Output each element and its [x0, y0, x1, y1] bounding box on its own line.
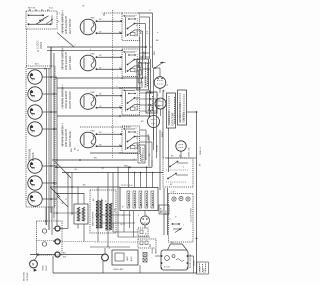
svg-text:LEFT REAR: LEFT REAR [68, 56, 72, 70]
svg-text:BAKE: BAKE [161, 131, 164, 137]
svg-text:M 1 2: M 1 2 [121, 224, 126, 226]
feed wire unit3 bottom [57, 115, 150, 117]
neutral terminal N [30, 260, 38, 268]
svg-text:BK 1: BK 1 [140, 202, 142, 206]
feed wire unit4 bottom [90, 152, 138, 154]
wires below cluster [153, 128, 155, 141]
svg-text:OVEN LAMP: OVEN LAMP [113, 268, 124, 271]
wire receptacle P7 stub [42, 198, 57, 200]
gang dashed line through switches [112, 10, 114, 158]
svg-text:W: W [78, 149, 80, 151]
dashed drop wire from clock box [26, 29, 28, 66]
bake element [96, 200, 99, 228]
lamp PL3 [148, 116, 160, 128]
svg-text:LAMP: LAMP [155, 248, 158, 254]
svg-text:OVEN: OVEN [142, 81, 144, 88]
wire band short [57, 193, 84, 195]
comb wires down [67, 172, 69, 229]
svg-text:BK R: BK R [141, 29, 143, 34]
svg-text:AND ELEMENT: AND ELEMENT [64, 90, 68, 109]
svg-text:RED: RED [91, 92, 96, 94]
svg-text:2: 2 [75, 45, 76, 47]
svg-text:RED: RED [71, 147, 73, 152]
wire y213 [53, 212, 84, 214]
receptacle P1 [28, 70, 42, 84]
svg-text:L1: L1 [135, 51, 137, 53]
svg-text:BAKE UNIT: BAKE UNIT [96, 207, 99, 218]
wire receptacle P4 stub [42, 128, 57, 130]
svg-text:AUTOMATIC OVEN: AUTOMATIC OVEN [179, 102, 182, 123]
svg-text:GROUND: GROUND [27, 272, 29, 281]
svg-text:BK 1: BK 1 [128, 202, 130, 206]
svg-text:LAMP: LAMP [126, 255, 129, 261]
ground arrow [34, 269, 38, 272]
part label box [197, 262, 209, 274]
leader diagonal from clock box [57, 33, 74, 48]
wire bundle v4 [140, 30, 143, 32]
svg-text:RED: RED [91, 17, 96, 19]
wire bundle v3 [140, 23, 146, 25]
surface element E3 [80, 94, 96, 110]
svg-text:OVEN: OVEN [152, 248, 154, 254]
svg-text:THERMOSTAT: THERMOSTAT [168, 110, 171, 126]
bottom element bus [90, 246, 130, 248]
wire thermostat to right bus [187, 111, 197, 113]
terminal pair [143, 253, 147, 257]
wire hood over door switch [168, 244, 188, 250]
wire bundle v2 [140, 16, 150, 18]
svg-text:SW: SW [63, 257, 66, 259]
feed wire pair from clock to surface units [47, 46, 146, 48]
svg-text:OVEN: OVEN [40, 42, 43, 49]
top-left oven clock-control switch box [26, 11, 57, 29]
wires element E1 to switch S1 [96, 20, 122, 22]
svg-text:W: W [66, 198, 68, 200]
oven indicator lamp PL1 [154, 77, 166, 89]
oven element enclosure (dashed) [90, 190, 116, 233]
svg-text:1: 1 [168, 161, 169, 163]
svg-text:RED: RED [91, 53, 96, 55]
wire into grill switch [62, 172, 163, 174]
svg-text:DOOR SWITCH: DOOR SWITCH [190, 253, 192, 268]
svg-text:1: 1 [117, 76, 118, 78]
svg-text:CLOCK OVEN: CLOCK OVEN [191, 208, 193, 222]
svg-text:2: 2 [130, 215, 131, 217]
svg-text:BAKE ELEMENT: BAKE ELEMENT [92, 211, 95, 226]
wire receptacle P3 stub [42, 111, 57, 113]
infinite switch S1 [122, 13, 140, 41]
wire receptacle P2 stub [42, 93, 57, 95]
svg-text:W: W [109, 247, 111, 249]
bus jog at clock [196, 238, 198, 240]
right verticals from S3 [153, 68, 155, 150]
svg-text:RIGHT REAR: RIGHT REAR [68, 131, 72, 147]
svg-text:BK 1: BK 1 [152, 202, 154, 206]
svg-text:RED: RED [91, 130, 96, 132]
wire receptacle P6 stub [42, 182, 57, 184]
wire band TBL [52, 159, 137, 161]
wires from receptacle block down [45, 207, 47, 225]
surface unit receptacle block (dashed) [26, 66, 55, 207]
selector contact [155, 63, 163, 69]
grill lamp PL4 [176, 141, 186, 151]
diagonal jog wires [55, 162, 71, 179]
svg-text:BLK: BLK [35, 64, 39, 66]
left bus wires [46, 69, 48, 226]
wire receptacle P5 stub [42, 165, 57, 167]
feed wire unit4 top [80, 126, 131, 128]
svg-text:W BK: W BK [144, 50, 146, 56]
svg-text:GRILL HI: GRILL HI [200, 146, 202, 155]
svg-text:2: 2 [117, 86, 118, 88]
svg-text:W: W [167, 84, 169, 86]
element exit wires [97, 228, 99, 242]
oven selector switch [137, 59, 149, 90]
lamp PL2 [155, 98, 166, 109]
svg-text:L1: L1 [135, 90, 137, 92]
broil element [106, 203, 109, 230]
feed wire L1 top dashed [104, 12, 122, 14]
clock contacts [172, 223, 180, 225]
svg-text:BK R: BK R [111, 209, 113, 214]
svg-text:BK 1: BK 1 [146, 202, 148, 206]
oven door switch box [161, 250, 188, 270]
surface element E4 [80, 132, 96, 148]
small fuse box 1 [138, 228, 148, 236]
door plug connector [74, 204, 88, 224]
infinite switch S3 [122, 88, 140, 116]
receptacle P4 [28, 122, 42, 136]
oven relay box [146, 92, 157, 113]
receptacle P7 [28, 192, 42, 206]
wire bundle v5 [139, 36, 141, 38]
svg-text:T1: T1 [170, 218, 172, 220]
svg-text:BR T BK: BR T BK [28, 8, 36, 10]
svg-text:Y W: Y W [115, 208, 117, 212]
svg-text:NEUTRAL: NEUTRAL [23, 271, 26, 281]
svg-text:AND ELEMENT: AND ELEMENT [64, 51, 68, 70]
clock terminal B [179, 196, 183, 200]
svg-text:L1 N T: L1 N T [171, 192, 176, 194]
svg-text:N L2: N L2 [49, 8, 53, 10]
bottom mid horizontals [95, 214, 130, 216]
svg-text:BK 1: BK 1 [134, 202, 136, 206]
wire receptacle P1 stub [42, 76, 57, 78]
infinite switch S4 [122, 126, 140, 154]
svg-text:2: 2 [46, 18, 47, 20]
thermostat terminal block [120, 188, 158, 211]
svg-text:TBL: TBL [94, 158, 97, 160]
thermostat tall box B [178, 90, 187, 125]
svg-text:3: 3 [138, 215, 139, 217]
narrow label box [138, 145, 145, 163]
svg-text:RIGHT FRONT: RIGHT FRONT [68, 91, 72, 109]
right bus wire [196, 112, 198, 273]
svg-text:GRILL ON: GRILL ON [189, 147, 191, 157]
wire band red [55, 166, 152, 168]
wires element E3 to switch S3 [96, 95, 122, 97]
junction block lamp b [42, 242, 46, 246]
svg-text:N C NO: N C NO [164, 267, 171, 269]
oven lamp [102, 254, 109, 261]
svg-text:AND ELEMENT: AND ELEMENT [64, 128, 68, 147]
vent fan motor [141, 216, 150, 225]
bottom-left junction block (dashed) [37, 221, 63, 255]
terminal block lower wires [123, 211, 125, 232]
lamp socket 3 [55, 252, 60, 257]
wire band bk [50, 186, 120, 188]
connector wires [77, 224, 79, 229]
unit4 out wires [140, 129, 146, 131]
svg-text:T2: T2 [176, 216, 178, 218]
mid bus wires [162, 90, 164, 158]
svg-text:1: 1 [31, 13, 32, 15]
svg-text:OVEN: OVEN [43, 265, 45, 271]
stubs from switch S3 [140, 92, 154, 94]
wire L1 to selector [138, 12, 153, 14]
lamp socket 2 [55, 239, 60, 244]
lamp socket 1 [55, 226, 60, 231]
svg-text:LIGHT: LIGHT [46, 264, 48, 271]
svg-text:L1: L1 [150, 9, 152, 11]
receptacle P2 [28, 87, 42, 101]
junction block lamp a [42, 229, 46, 233]
small aux box [159, 205, 169, 214]
wires from door switch sides [155, 255, 161, 257]
svg-text:LEFT FRONT: LEFT FRONT [68, 18, 72, 34]
svg-text:SIGNAL: SIGNAL [156, 144, 159, 152]
feed wire unit2 bottom [55, 77, 143, 79]
svg-text:W: W [106, 200, 108, 202]
bottom mid verticals [112, 172, 114, 232]
svg-text:L1 RED: L1 RED [200, 266, 202, 273]
svg-text:AND ELEMENT: AND ELEMENT [64, 15, 68, 34]
oven clock (dashed box) [169, 194, 194, 243]
svg-text:4: 4 [146, 215, 147, 217]
clock terminal A [172, 197, 176, 201]
grill switch box (dashed) [163, 158, 193, 187]
svg-text:1R 2R 1L 2L B: 1R 2R 1L 2L B [121, 185, 133, 187]
svg-text:L1: L1 [135, 15, 137, 17]
svg-text:W: W [151, 46, 153, 48]
wires element E2 to switch S2 [96, 56, 122, 58]
svg-text:1: 1 [122, 215, 123, 217]
stubs from switch S2 [140, 52, 151, 54]
wires right of selector [150, 59, 152, 93]
svg-text:ASSY: ASSY [130, 255, 133, 261]
small fuse box 2 [138, 239, 156, 248]
oven light assembly box [112, 250, 138, 265]
receptacle P5 [28, 159, 42, 173]
clock terminal C [186, 197, 190, 201]
svg-text:L1: L1 [135, 128, 137, 130]
surface element E2 [80, 55, 96, 71]
infinite switch S2 [122, 49, 140, 77]
wires element E4 to switch S4 [96, 133, 122, 135]
bottom neutral run [53, 272, 197, 274]
svg-text:RED: RED [154, 50, 156, 55]
svg-text:2: 2 [183, 167, 184, 169]
receptacle P6 [28, 176, 42, 190]
surface element E1 [80, 19, 96, 35]
svg-text:TERMINAL: TERMINAL [28, 148, 32, 161]
feed wire unit3 top [57, 87, 140, 89]
entry wires to terminal block [128, 167, 130, 187]
neutral wire to N [30, 254, 53, 256]
thermostat tall box A [167, 93, 176, 128]
receptacle P3 [28, 105, 42, 119]
